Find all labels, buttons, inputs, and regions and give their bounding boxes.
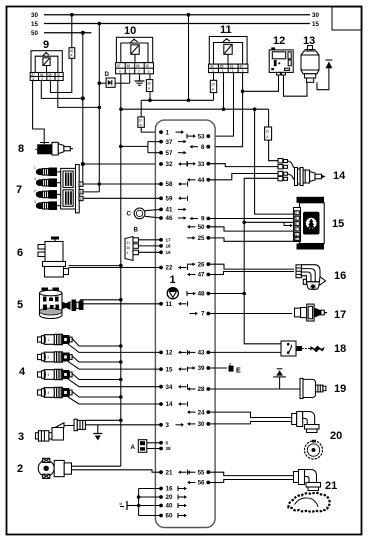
svg-text:16: 16 [166, 486, 173, 493]
right trunk B to comp 15 [255, 109, 294, 214]
node 15 bus [31, 21, 319, 28]
injector 4 (component 4) [38, 387, 73, 397]
svg-text:8: 8 [18, 143, 24, 155]
svg-text:6: 6 [17, 247, 23, 259]
pin 47 (ECU right) [187, 272, 210, 279]
pin 58 (ECU left) [159, 181, 187, 188]
injector 4 wires [72, 392, 121, 398]
diode D [99, 71, 129, 87]
pin 25 (ECU right) [187, 235, 210, 242]
wires 3 to ECU pin 3 [85, 419, 120, 421]
svg-text:16: 16 [334, 270, 346, 282]
svg-text:40: 40 [166, 503, 173, 510]
wire coil t2 stub [83, 191, 99, 193]
spark plug 3 [34, 189, 61, 199]
wire pin 56 to comp 21 [208, 480, 293, 483]
svg-text:38: 38 [166, 446, 172, 451]
svg-text:B: B [295, 237, 297, 241]
svg-text:4: 4 [295, 233, 297, 237]
pin 18 (ECU left) [159, 244, 171, 249]
svg-text:30: 30 [210, 65, 214, 69]
ECU box component 1 [155, 120, 215, 527]
fuse F5 10A [265, 127, 272, 140]
svg-text:25: 25 [198, 235, 205, 242]
svg-text:4: 4 [41, 77, 43, 81]
wire pin 9 to comp 15 [208, 218, 293, 220]
pin 33 (ECU right) [187, 161, 210, 168]
wire node15 drop vertical [98, 24, 102, 192]
relay 11 [209, 24, 247, 64]
svg-text:10: 10 [124, 25, 136, 37]
pin 26 (ECU right) [187, 261, 210, 268]
svg-text:11: 11 [166, 301, 173, 308]
svg-text:5: 5 [166, 440, 169, 445]
wires B to pins 17 18 19 [139, 239, 162, 241]
injector 2 wires [72, 356, 121, 362]
wire pin 55 to comp 21 [208, 472, 293, 475]
wire pin 43 to comp 18 [208, 351, 281, 353]
svg-text:a: a [80, 190, 82, 194]
svg-text:9: 9 [58, 77, 60, 81]
svg-text:3: 3 [18, 431, 24, 443]
component 3 (sensor with connector) [18, 423, 74, 443]
wire relay9 t2 to node50 drop [41, 81, 83, 99]
pin 16 (ECU left) [159, 486, 187, 493]
node 30 bus [31, 12, 319, 19]
svg-text:2: 2 [138, 70, 140, 74]
component 7: ignition coils and spark plugs [16, 184, 22, 196]
svg-text:86: 86 [136, 64, 140, 68]
wire left end down to fuse F3 [140, 100, 142, 117]
connector A [131, 440, 147, 453]
wire pin 28 to comp 19 [208, 388, 300, 390]
wires 5 to ECU pin 11 [80, 299, 121, 301]
svg-text:1: 1 [222, 69, 224, 73]
wire F5 to lambda upper [269, 140, 278, 161]
svg-text:8: 8 [201, 144, 205, 151]
component 21 (elbow connector with toothed wheel) [294, 470, 338, 493]
pin 17 (ECU left) [159, 237, 171, 242]
wire pin 33 to lambda [208, 164, 278, 167]
svg-text:15: 15 [31, 21, 38, 28]
pin 24 (ECU right) [187, 409, 210, 416]
svg-text:7: 7 [16, 184, 22, 196]
svg-text:14: 14 [166, 401, 173, 408]
svg-text:7: 7 [201, 311, 205, 318]
svg-text:48: 48 [198, 291, 205, 298]
wire F2 down to node line [149, 92, 151, 101]
component 20 (elbow connector with sensor) [292, 412, 343, 443]
component 14 (lambda sensor) [278, 159, 346, 186]
pin 48 (ECU right) [187, 291, 210, 298]
wire to pin 32 [83, 163, 161, 165]
svg-text:15: 15 [230, 65, 234, 69]
pin 28 (ECU right) [187, 386, 210, 393]
svg-text:0: 0 [295, 227, 297, 231]
svg-text:C: C [127, 211, 132, 218]
wire pin 39 to connector E [208, 367, 227, 369]
svg-text:3: 3 [212, 69, 214, 73]
svg-text:b: b [80, 197, 82, 201]
component 2 (rpm sensor) [17, 458, 72, 478]
svg-text:10: 10 [139, 119, 143, 123]
wire relay9 t1 to component 8 [33, 81, 45, 145]
ECU logo [167, 288, 178, 299]
svg-text:D: D [105, 71, 110, 78]
pin 46 (ECU left) [159, 215, 186, 222]
svg-text:20: 20 [330, 430, 342, 442]
svg-text:31: 31 [127, 241, 131, 245]
component 19 (pressure regulator) [300, 378, 346, 398]
wire 30 to fuse F1 [71, 15, 73, 48]
pin 11 (ECU left) [159, 301, 187, 308]
injector 3 (component 4) [38, 369, 73, 379]
wire pin 50 to comp 15 [208, 227, 293, 231]
connector B (3-pin) [125, 227, 139, 261]
connector E [229, 362, 242, 374]
svg-text:26: 26 [198, 261, 205, 268]
svg-text:1: 1 [170, 274, 176, 286]
pin 14 (ECU left) [159, 401, 187, 408]
svg-text:4: 4 [34, 177, 36, 181]
wire pin 26 to comp 16 [208, 264, 294, 269]
pin 3 (ECU left) [159, 422, 184, 429]
pin 44 (ECU right) [187, 177, 210, 184]
pin 1 (ECU left) [159, 129, 184, 136]
pin 32 (ECU left) [159, 161, 187, 168]
svg-text:39: 39 [198, 365, 205, 372]
wire F1 to relay9 t3 [51, 58, 72, 92]
svg-text:60: 60 [166, 513, 173, 520]
svg-text:10: 10 [266, 130, 270, 134]
svg-text:1: 1 [295, 211, 297, 215]
wire right end up to fuse F4 under relay 11 [213, 93, 215, 101]
wire relay11 t4 to pin 8 [208, 73, 242, 147]
svg-text:30: 30 [312, 12, 319, 19]
relay 10 terminal strip [116, 63, 154, 74]
svg-text:A: A [131, 444, 136, 451]
wire coil t1 to pin 58 [83, 183, 161, 185]
svg-text:3: 3 [166, 422, 170, 429]
svg-text:30: 30 [31, 12, 38, 19]
svg-text:1: 1 [48, 338, 50, 342]
coil pack body [61, 165, 79, 213]
svg-text:10: 10 [211, 83, 215, 87]
ground under connector 3 [93, 425, 102, 441]
wire relay11 t3 to pin 53 [208, 73, 233, 137]
fuse F4 10A [210, 80, 216, 92]
pin 38 (ECU left) [159, 446, 171, 451]
svg-text:30: 30 [147, 82, 151, 86]
wire main feed y109 [121, 108, 269, 110]
svg-text:28: 28 [198, 386, 205, 393]
svg-text:2: 2 [17, 463, 23, 475]
svg-text:12: 12 [273, 35, 285, 47]
svg-text:30: 30 [70, 49, 74, 53]
svg-text:2: 2 [229, 362, 231, 366]
wire pin 24 to comp 20 [208, 412, 291, 417]
svg-text:56: 56 [198, 480, 205, 487]
svg-text:58: 58 [166, 181, 173, 188]
svg-text:32: 32 [166, 161, 173, 168]
svg-text:43: 43 [198, 350, 205, 357]
svg-text:5: 5 [242, 69, 244, 73]
node 50 bus [31, 30, 91, 37]
svg-text:24: 24 [198, 409, 205, 416]
spark plug 4 [34, 200, 61, 210]
pin 53 (ECU right) [187, 133, 210, 140]
svg-text:50: 50 [198, 224, 205, 231]
wire node30 drop [188, 15, 190, 101]
svg-text:6: 6 [295, 222, 297, 226]
svg-text:19: 19 [334, 383, 346, 395]
injector 1 wires [72, 339, 121, 347]
injector 2 (component 4) [38, 352, 73, 362]
pin 9 (ECU right) [190, 216, 211, 223]
component 16 (elbow connector) [296, 265, 346, 290]
svg-text:17: 17 [334, 309, 346, 321]
ground point symbol [120, 501, 128, 510]
svg-text:4: 4 [48, 391, 50, 395]
wire pin 47 to comp 16 [208, 272, 294, 275]
svg-text:87: 87 [240, 65, 244, 69]
relay 11 terminal strip [209, 64, 248, 73]
fuse F3 10A [138, 117, 144, 127]
svg-text:85: 85 [127, 64, 131, 68]
vent symbol top right [325, 60, 332, 68]
wire pin 7 to comp 17 [208, 313, 292, 315]
svg-text:19: 19 [166, 250, 172, 255]
pin 15 (ECU left) [159, 366, 187, 373]
pin 8 (ECU right) [190, 144, 211, 151]
svg-text:9: 9 [201, 216, 205, 223]
pin 34 (ECU left) [159, 384, 187, 391]
pin 5 (ECU left) [159, 440, 168, 445]
wire 12 lead A to relay11 t4 line [243, 75, 279, 91]
fuse F2 30A [146, 80, 152, 92]
ground bus for pins 16 20 40 60 [127, 489, 161, 516]
wire node50 drop vertical [81, 33, 85, 182]
wire pin 30 to comp 20 [208, 422, 291, 424]
pin 20 (ECU left) [159, 494, 187, 501]
svg-text:85: 85 [220, 65, 224, 69]
svg-text:11: 11 [220, 24, 232, 36]
svg-text:2: 2 [34, 189, 36, 193]
pin 12 (ECU left) [159, 350, 187, 357]
svg-text:18: 18 [334, 343, 346, 355]
svg-text:41: 41 [166, 207, 173, 214]
wire relay10 t4 to fuse F2 [149, 74, 151, 80]
pin 59 (ECU left) [159, 196, 187, 203]
component 15 (control unit) [284, 197, 344, 250]
pin 56 (ECU right) [187, 480, 210, 487]
left trunk wire (relay10 87 feed) [119, 74, 123, 466]
relay 10 [116, 25, 152, 63]
svg-text:4: 4 [127, 251, 129, 255]
pin 21 (ECU left) [159, 469, 187, 476]
svg-text:22: 22 [166, 265, 173, 272]
pin 19 (ECU left) [159, 250, 171, 255]
vent symbol for 19 [273, 369, 286, 389]
svg-text:30: 30 [146, 64, 150, 68]
svg-text:14: 14 [333, 170, 346, 182]
relay 9 terminal strip [30, 73, 63, 81]
component 18 (inertia switch) [281, 341, 346, 356]
pin 43 (ECU right) [187, 350, 210, 357]
svg-text:33: 33 [198, 161, 205, 168]
wire pin 25 to comp 15 [208, 238, 293, 241]
wire trunk A to comp 15 [244, 221, 293, 223]
legend box top right [332, 7, 362, 30]
wires 6 to ECU pin 22 [69, 265, 121, 267]
wire relay11 t2 down [223, 73, 225, 110]
relay 9 [31, 39, 62, 73]
svg-text:0: 0 [119, 70, 121, 74]
pin 55 (ECU right) [187, 469, 210, 476]
sensor circle 20 [305, 440, 323, 459]
pin 50 (ECU right) [187, 224, 210, 231]
svg-text:M: M [120, 502, 123, 506]
svg-text:15: 15 [166, 366, 173, 373]
svg-text:2: 2 [49, 77, 51, 81]
fuse F1 30A [69, 48, 75, 59]
svg-text:44: 44 [198, 177, 205, 184]
wire y109 right end down to fuse F5 [268, 109, 270, 127]
svg-text:37: 37 [166, 139, 173, 146]
svg-text:5: 5 [17, 299, 23, 311]
svg-text:34: 34 [166, 384, 173, 391]
svg-text:57: 57 [166, 150, 173, 157]
svg-text:59: 59 [166, 196, 173, 203]
svg-text:17: 17 [166, 237, 172, 242]
pin 40 (ECU left) [159, 503, 187, 510]
ground under relay10 t3 [135, 74, 145, 85]
svg-text:2: 2 [232, 69, 234, 73]
svg-text:5: 5 [295, 217, 297, 221]
wire 12 lead B to 13 [284, 75, 308, 96]
svg-text:2: 2 [48, 356, 50, 360]
toothed wheel 21 [288, 493, 329, 512]
pin 41 (ECU left) [159, 207, 186, 214]
svg-text:B: B [134, 227, 139, 234]
component 12 [269, 35, 293, 75]
pin 57 (ECU left) [159, 150, 186, 157]
pin 60 (ECU left) [159, 513, 187, 520]
component 17 (spark plug / sensor) [295, 304, 347, 321]
svg-text:15: 15 [332, 218, 344, 230]
svg-text:1: 1 [34, 166, 36, 170]
svg-text:1: 1 [166, 129, 170, 136]
svg-text:15: 15 [312, 21, 319, 28]
svg-text:4: 4 [19, 366, 26, 378]
svg-text:3: 3 [48, 373, 50, 377]
injector 1 (component 4) [38, 334, 73, 344]
connector C [127, 208, 162, 219]
wire trunk to pins 37/57 [121, 142, 161, 153]
spark plug 2 [34, 177, 61, 187]
component 8 (sensor) [18, 142, 73, 155]
svg-text:20: 20 [166, 494, 173, 501]
pin 22 (ECU left) [159, 265, 187, 272]
component 6 (idle actuator) [17, 237, 69, 278]
wire F4 to relay11 t1 [213, 73, 215, 81]
wire relay9 t4 to node15 drop [58, 81, 100, 108]
wire horizontal feed y100 [141, 99, 213, 103]
wires A to pins 5 and 38 [147, 442, 161, 444]
pin 30 (ECU right) [187, 421, 210, 428]
svg-text:6: 6 [33, 77, 35, 81]
wires 2 to ECU pin 21 [72, 465, 121, 467]
svg-text:12: 12 [166, 350, 173, 357]
svg-text:21: 21 [166, 469, 173, 476]
svg-text:50: 50 [31, 30, 38, 37]
wire coil t3 to pin 59 [83, 197, 161, 199]
pin 39 (ECU right) [187, 365, 210, 372]
wire pin 48 to trunk A [208, 293, 244, 295]
svg-text:9: 9 [43, 39, 49, 51]
svg-text:E: E [236, 366, 241, 375]
component 13 [301, 35, 319, 82]
wire pin 44 to lambda [208, 174, 278, 180]
svg-text:55: 55 [198, 469, 205, 476]
svg-text:53: 53 [198, 133, 205, 140]
wire 13 to vent [317, 68, 329, 90]
right trunk A (signal ground) [242, 178, 281, 343]
svg-text:30: 30 [198, 421, 205, 428]
svg-text:3: 3 [148, 70, 150, 74]
svg-text:47: 47 [198, 272, 205, 279]
svg-text:46: 46 [166, 215, 173, 222]
svg-text:87: 87 [117, 64, 121, 68]
connector of 3 [74, 419, 85, 431]
svg-text:3: 3 [34, 200, 36, 204]
svg-text:18: 18 [166, 244, 172, 249]
injector 3 wires [72, 374, 121, 380]
pin 37 (ECU left) [159, 139, 186, 146]
pin 7 (ECU right) [190, 311, 211, 318]
svg-text:36: 36 [127, 246, 131, 250]
svg-text:21: 21 [325, 480, 337, 492]
wire F3 to pin 1 [141, 127, 161, 132]
svg-text:1: 1 [129, 70, 131, 74]
coil pack terminals [79, 182, 83, 201]
component 5 (canister purge valve) [17, 288, 84, 319]
spark plug 1 [34, 166, 61, 176]
